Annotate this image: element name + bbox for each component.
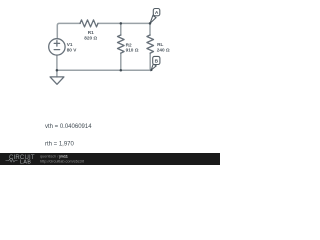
svg-text:910 Ω: 910 Ω (126, 48, 139, 53)
svg-text:80 V: 80 V (67, 48, 78, 53)
svg-text:rth = 1,970: rth = 1,970 (45, 142, 75, 148)
svg-text:820 Ω: 820 Ω (84, 35, 97, 40)
svg-text:A: A (155, 10, 159, 16)
svg-text:vth = 0.04060914: vth = 0.04060914 (45, 124, 92, 130)
svg-text:LAB: LAB (20, 160, 31, 166)
svg-text:http://circuitlab.com/c6c3rt: http://circuitlab.com/c6c3rt (40, 160, 85, 164)
svg-text:B: B (155, 59, 159, 65)
svg-text:RL: RL (157, 42, 163, 47)
svg-text:V1: V1 (67, 42, 73, 47)
svg-text:quentisch / jm11: quentisch / jm11 (40, 155, 68, 159)
svg-text:240 Ω: 240 Ω (157, 47, 170, 52)
